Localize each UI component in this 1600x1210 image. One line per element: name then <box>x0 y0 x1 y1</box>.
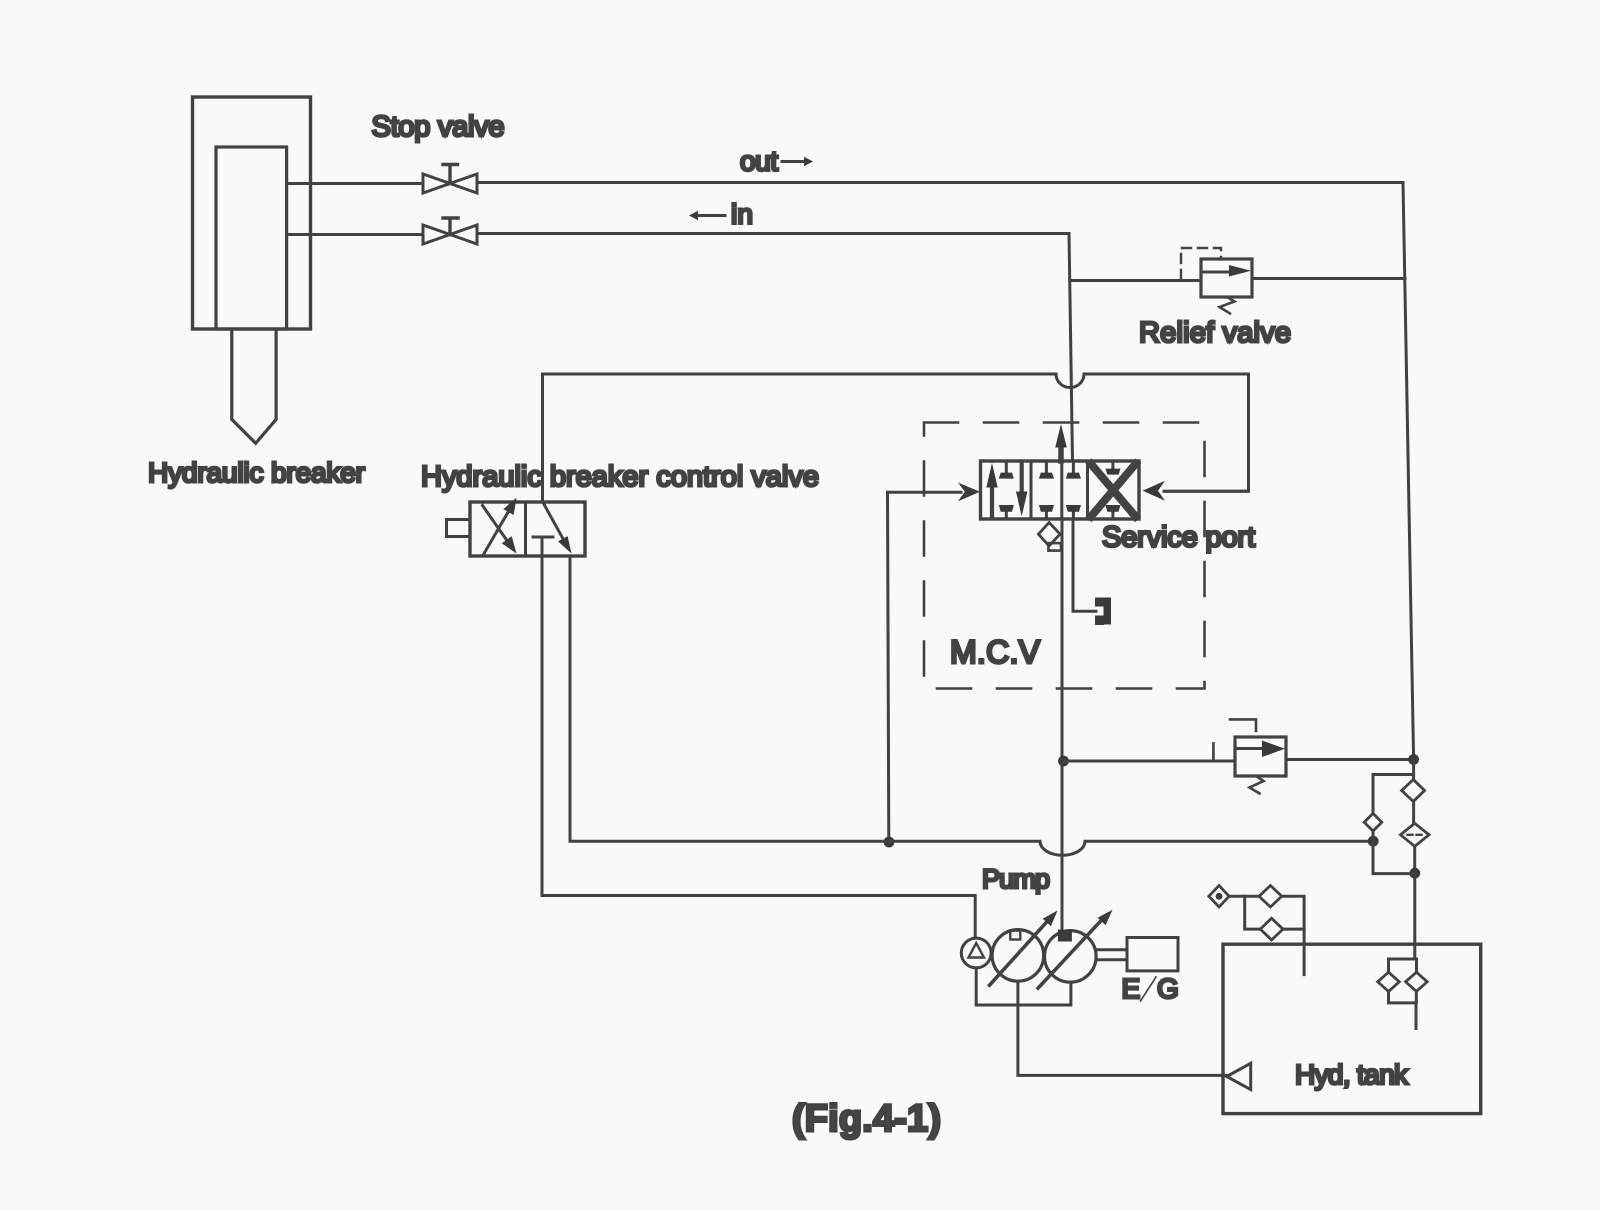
spool left cell bottom port T <box>999 505 1014 519</box>
hydraulic tank box <box>1223 944 1481 1113</box>
RV2 pilot tick <box>1212 743 1215 759</box>
main control valve spool box U1 <box>981 461 1140 519</box>
junction dot discharge to relief 2 <box>1058 756 1069 767</box>
junction dot RV2 out <box>1408 754 1419 765</box>
in arrow <box>698 214 725 217</box>
breaker control valve actuator <box>447 520 471 537</box>
breather parallel bracket <box>1245 896 1304 929</box>
hydraulic breaker chisel <box>232 330 276 443</box>
svg-text:Hydraulic breaker: Hydraulic breaker <box>148 457 365 488</box>
wire left pilot <box>888 491 962 494</box>
strainer bracket <box>1389 959 1417 1029</box>
strainer diamond right <box>1406 972 1428 991</box>
control box boundary wire <box>543 374 1249 502</box>
hydraulic breaker body outer <box>193 97 311 329</box>
svg-text:Hydraulic breaker control valv: Hydraulic breaker control valve <box>421 461 819 493</box>
wire RV2 out <box>1286 758 1414 761</box>
spool right cell top port T <box>1105 461 1120 475</box>
junction dot pilot to line B <box>884 837 895 848</box>
secondary relief valve RV2 <box>1235 737 1286 776</box>
wire spool bottom port to plug <box>1073 519 1096 611</box>
breaker control valve right cell path arrow <box>533 503 572 557</box>
filter diamond D2 <box>1401 823 1430 846</box>
pump P1 port tab <box>1010 931 1020 940</box>
pump suction bracket <box>976 968 1071 1005</box>
breaker control valve V2 box <box>470 502 585 556</box>
svg-text:Service port: Service port <box>1102 522 1255 554</box>
air breather dot <box>1216 893 1223 900</box>
svg-text:out: out <box>740 146 778 177</box>
spool left cell top port T <box>999 461 1014 479</box>
pilot pump triangle <box>969 943 985 958</box>
label E/G <box>1141 977 1157 1001</box>
out arrow <box>782 160 804 163</box>
wire to tank strainers <box>1413 873 1416 959</box>
spool divider 2 <box>1086 461 1089 519</box>
svg-text:Pump: Pump <box>982 864 1050 894</box>
filter branch left bypass <box>1373 775 1414 814</box>
RV2 pilot corner <box>1230 719 1256 731</box>
spool divider 1 <box>1030 461 1033 519</box>
wire bypass down <box>1373 831 1415 874</box>
svg-text:M.C.V: M.C.V <box>950 634 1041 670</box>
wire left pilot vertical <box>888 492 889 841</box>
check valve diamond under spool <box>1038 523 1060 546</box>
pilot pump circle <box>961 938 991 968</box>
M.C.V dashed box <box>924 423 1205 689</box>
wire in vertical down to MCV spool <box>1069 234 1073 462</box>
svg-text:Hyd, tank: Hyd, tank <box>1295 1059 1409 1090</box>
spool middle cell top port T right <box>1066 461 1081 479</box>
check diamond D1 <box>1402 780 1425 802</box>
pump P2 port tab <box>1058 930 1072 942</box>
wire D2 to bottom junction <box>1413 846 1416 873</box>
air breather diamond <box>1209 886 1229 908</box>
junction dot line B right <box>1368 836 1379 847</box>
engine E/G box <box>1127 938 1178 971</box>
main pump P2 circle <box>1045 931 1097 983</box>
svg-text:Relief valve: Relief valve <box>1139 317 1291 349</box>
wire line B control valve to return <box>570 556 1373 855</box>
wire relief valve out <box>1252 277 1405 280</box>
check valve seat square <box>1048 543 1061 551</box>
filter D2 dashed element <box>1408 834 1423 836</box>
wire breaker out port <box>287 182 423 185</box>
relief valve RV1 pilot dashed <box>1181 248 1221 279</box>
spool left pilot arrow <box>958 483 980 502</box>
wire pump discharge line <box>1061 519 1064 930</box>
breaker control valve divider <box>524 502 527 556</box>
wire in line <box>477 232 1069 235</box>
engine shaft lines <box>1096 950 1127 960</box>
breather top diamond <box>1259 886 1282 908</box>
svg-text:Stop valve: Stop valve <box>372 111 505 143</box>
wire out line to right <box>477 181 1403 184</box>
wire line A control valve to pump <box>542 556 975 938</box>
svg-text:E: E <box>1122 973 1141 1004</box>
relief valve RV1 <box>1201 259 1252 297</box>
filter branch right vertical <box>1412 760 1415 780</box>
relief valve RV1 spring <box>1220 297 1235 314</box>
wire pump suction <box>1018 981 1226 1075</box>
spool left cell up arrow <box>986 463 997 518</box>
breaker control valve left cell cross arrows <box>483 498 517 555</box>
wire to RV2 <box>1064 760 1236 763</box>
RV2 spring <box>1250 776 1264 794</box>
spool middle cell bottom port T right <box>1066 505 1081 519</box>
stop valve SV1 <box>423 165 477 194</box>
plugged port symbol <box>1095 598 1111 626</box>
wire right pilot to boundary <box>1164 490 1249 493</box>
bypass diamond D3 <box>1364 813 1382 831</box>
pump P1 variable arrow <box>990 911 1058 986</box>
breather pipe into tank <box>1303 929 1306 975</box>
tank suction triangle <box>1227 1063 1251 1089</box>
wire branch to relief valve <box>1070 279 1201 282</box>
wire between diamonds <box>1412 801 1415 823</box>
wire out vertical right side <box>1403 183 1414 760</box>
svg-text:(Fig.4-1): (Fig.4-1) <box>792 1098 941 1140</box>
svg-text:in: in <box>731 199 753 230</box>
spool through line <box>1060 461 1063 519</box>
strainer diamond left <box>1378 972 1400 991</box>
spool right pilot arrow <box>1143 481 1166 501</box>
wire breaker in port <box>287 233 423 236</box>
main pump P1 circle <box>992 930 1044 982</box>
spool right cell crossed arrows <box>1091 464 1136 517</box>
svg-text:G: G <box>1157 973 1179 1004</box>
junction dot filters bottom <box>1409 868 1420 879</box>
spool middle cell top port T left <box>1039 461 1054 479</box>
spool left cell down arrow <box>1016 462 1027 516</box>
breather wire <box>1229 895 1259 898</box>
spool right cell bottom port T <box>1105 505 1120 519</box>
breather bottom diamond <box>1260 918 1283 940</box>
stop valve SV2 <box>423 218 477 244</box>
pump flow up arrow above spool <box>1055 424 1067 461</box>
spool middle cell bottom port T left <box>1039 505 1054 519</box>
hydraulic breaker body inner <box>216 147 287 329</box>
pump P2 variable arrow <box>1038 910 1112 988</box>
